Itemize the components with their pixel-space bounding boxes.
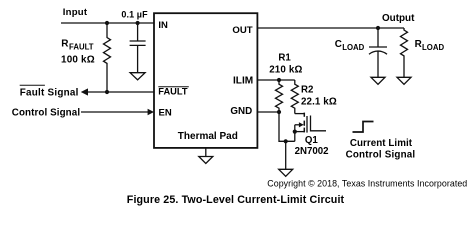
- transistor Q1 source lead: [295, 131, 304, 133]
- transistor Q1 gate bar: [306, 116, 308, 133]
- ground under IC: [199, 157, 213, 164]
- node junction input/C1: [136, 21, 140, 25]
- svg-text:Copyright © 2018, Texas Instru: Copyright © 2018, Texas Instruments Inco…: [267, 179, 467, 189]
- transistor Q1 channel contacts: [303, 113, 305, 117]
- node junction fault/RFAULT: [105, 90, 109, 94]
- svg-text:Output: Output: [382, 13, 415, 24]
- arrow into EN (points right): [148, 109, 154, 116]
- node junction input/RFAULT: [105, 21, 109, 25]
- svg-text:Current Limit: Current Limit: [350, 138, 413, 149]
- transistor Q1 drain lead: [295, 113, 304, 115]
- wire bottom ground stem: [285, 141, 287, 169]
- svg-text:FAULT: FAULT: [69, 43, 94, 52]
- ground under CLOAD: [371, 77, 385, 84]
- svg-text:R1: R1: [278, 53, 291, 64]
- wire Q1 gate/source vertical: [294, 125, 296, 142]
- ground under RLOAD: [397, 77, 411, 84]
- svg-text:Input: Input: [63, 7, 88, 18]
- ground under Q1: [279, 169, 293, 176]
- wire GND drop to bottom: [279, 112, 295, 141]
- svg-text:IN: IN: [158, 20, 168, 31]
- capacitor CLOAD: [377, 28, 379, 47]
- overline Fault: [20, 84, 45, 86]
- svg-text:Q1: Q1: [305, 135, 319, 146]
- wire control signal: [81, 111, 149, 113]
- svg-text:0.1 µF: 0.1 µF: [121, 9, 148, 19]
- step waveform icon: [353, 122, 374, 133]
- wire fault signal: [87, 91, 154, 93]
- svg-text:OUT: OUT: [232, 25, 252, 36]
- resistor R1: [276, 80, 283, 112]
- arrow Q1 body (points right): [299, 122, 304, 127]
- svg-text:Fault Signal: Fault Signal: [20, 88, 79, 99]
- svg-text:LOAD: LOAD: [342, 43, 364, 52]
- svg-text:GND: GND: [230, 106, 252, 117]
- capacitor C 0.1uF: [137, 23, 139, 41]
- resistor RFAULT: [104, 23, 111, 92]
- wire output net: [257, 27, 404, 29]
- svg-text:C: C: [335, 39, 342, 50]
- arrow fault signal (points left): [81, 88, 88, 95]
- svg-text:LOAD: LOAD: [422, 43, 444, 52]
- svg-text:Control Signal: Control Signal: [12, 108, 81, 119]
- wire thermal pad stem: [205, 148, 207, 157]
- ground under C: [130, 73, 145, 80]
- svg-text:ILIM: ILIM: [233, 76, 253, 87]
- svg-text:FAULT: FAULT: [158, 87, 188, 97]
- svg-text:2N7002: 2N7002: [295, 146, 329, 157]
- node junction bottom ground: [284, 139, 288, 143]
- op-amp U1 IC body: [154, 13, 257, 148]
- node junction ILIM/R1: [277, 78, 281, 82]
- wire input net: [61, 22, 154, 24]
- node junction GND/R1: [277, 110, 281, 114]
- overline FAULT pin: [158, 86, 189, 88]
- svg-text:R2: R2: [301, 84, 313, 95]
- resistor R2: [291, 80, 298, 114]
- wire GND net: [257, 111, 279, 113]
- transistor Q1 gate lead: [311, 116, 327, 131]
- svg-text:Thermal Pad: Thermal Pad: [178, 131, 238, 142]
- resistor RLOAD: [401, 28, 408, 77]
- transistor Q1 body arrow lead: [295, 124, 300, 126]
- svg-text:22.1 kΩ: 22.1 kΩ: [301, 97, 337, 108]
- svg-text:R: R: [415, 39, 422, 50]
- node junction Q1 source: [293, 130, 297, 134]
- svg-text:Figure 25. Two-Level Current-: Figure 25. Two-Level Current-Limit Circu…: [127, 194, 345, 206]
- svg-text:Control Signal: Control Signal: [346, 150, 416, 161]
- svg-text:EN: EN: [159, 108, 172, 119]
- node junction out/CLOAD: [376, 26, 380, 30]
- svg-text:100 kΩ: 100 kΩ: [61, 55, 95, 66]
- wire ILIM net: [257, 79, 294, 81]
- svg-text:210 kΩ: 210 kΩ: [269, 65, 302, 76]
